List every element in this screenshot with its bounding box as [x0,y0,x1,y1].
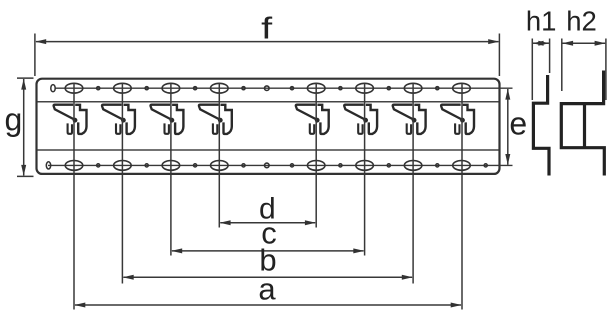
svg-text:f: f [261,10,272,45]
svg-text:e: e [509,106,527,142]
svg-text:d: d [259,193,276,226]
svg-text:g: g [5,102,23,138]
svg-text:h1: h1 [526,6,557,37]
svg-text:h2: h2 [566,6,597,37]
